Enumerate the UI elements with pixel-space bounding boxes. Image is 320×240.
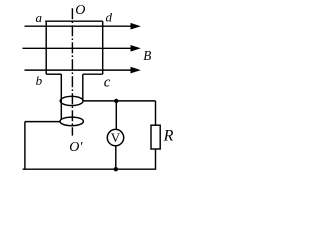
svg-text:d: d: [106, 10, 113, 25]
coil turn ellipse 1: [60, 96, 83, 105]
resistor R body: [151, 125, 160, 149]
coil turn ellipse 2: [60, 117, 83, 126]
rectangular loop abcd: right edge d-c: [102, 21, 104, 74]
svg-text:R: R: [163, 128, 174, 145]
wire: coil top turn to circuit top right: [83, 100, 155, 102]
svg-text:b: b: [36, 73, 43, 88]
wire: circuit right side down to resistor: [155, 101, 157, 125]
rectangular loop abcd: bottom edge right segment (c side): [83, 73, 103, 75]
svg-text:c: c: [104, 75, 111, 91]
rectangular loop abcd: left edge a-b: [45, 21, 47, 74]
axis O-O' dash-dot line: [71, 8, 73, 135]
lead wire from b down to coil: [60, 74, 62, 119]
rectangular loop abcd: bottom edge left segment (b side): [46, 73, 61, 75]
lead wire from c down to coil: [82, 74, 84, 101]
svg-text:a: a: [36, 10, 43, 25]
wire: bottom rail: [23, 168, 157, 170]
wire: voltmeter branch upper: [115, 101, 117, 130]
wire: coil bottom turn to circuit left: [25, 121, 60, 123]
svg-text:V: V: [111, 130, 121, 145]
rectangular loop abcd: top edge a-d: [45, 20, 102, 22]
wire: resistor to bottom right corner: [155, 149, 157, 169]
svg-text:B: B: [143, 48, 151, 63]
wire: voltmeter branch lower: [115, 146, 117, 169]
field line arrow 2 (B field): [23, 45, 141, 52]
voltmeter V body: [107, 129, 123, 145]
field line arrow 1 (B field): [25, 23, 141, 30]
junction node at top of voltmeter branch: [114, 99, 118, 103]
wire: left side vertical: [24, 122, 26, 170]
field line arrow 3 (B field): [25, 67, 141, 74]
svg-text:O′: O′: [69, 140, 83, 155]
junction node at bottom of voltmeter branch: [114, 167, 118, 171]
svg-text:O: O: [75, 3, 85, 18]
